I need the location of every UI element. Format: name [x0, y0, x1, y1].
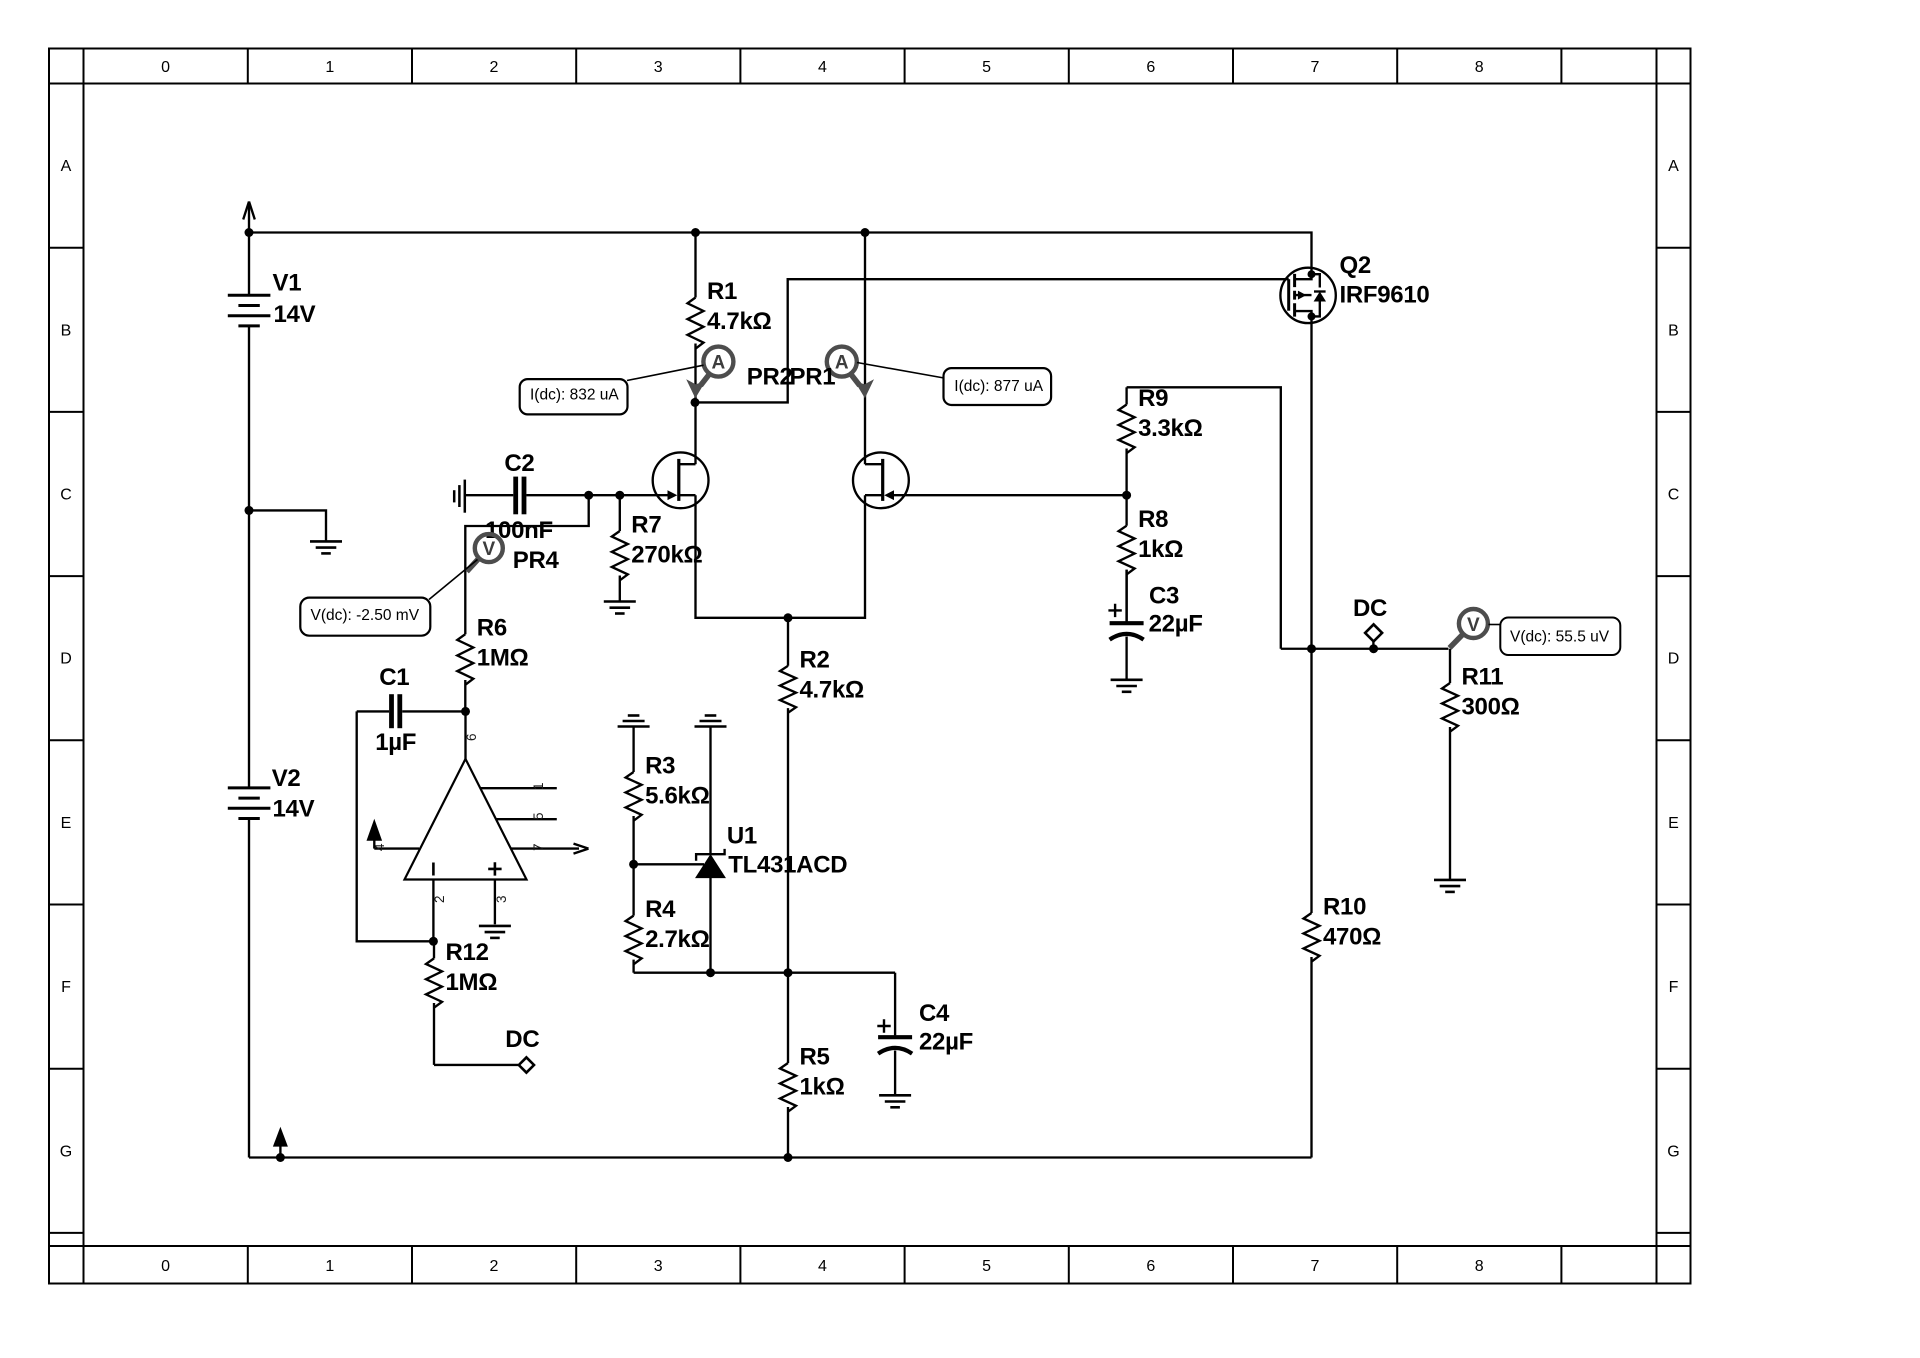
svg-text:300Ω: 300Ω: [1462, 694, 1520, 721]
svg-text:270kΩ: 270kΩ: [631, 542, 702, 569]
node V1+ / rail: [245, 228, 254, 237]
wire reference bottom net: [634, 972, 896, 974]
node rail/R1: [691, 228, 700, 237]
ground (input, rotated): [454, 480, 465, 513]
svg-text:R12: R12: [446, 939, 489, 966]
svg-text:F: F: [61, 979, 71, 996]
probe PR2 (ammeter): [686, 347, 733, 399]
port DC (output node): [1353, 595, 1387, 641]
svg-text:R4: R4: [645, 896, 676, 923]
capacitor C2: [485, 450, 553, 544]
wire Q2 drain down: [1310, 323, 1312, 649]
svg-text:R1: R1: [707, 278, 737, 305]
wire 0V reference spur: [249, 510, 326, 541]
svg-text:22µF: 22µF: [1149, 611, 1203, 638]
resistor R10: [1304, 649, 1382, 1158]
battery V1: [228, 202, 316, 328]
svg-text:C2: C2: [504, 450, 534, 477]
svg-text:R8: R8: [1138, 506, 1168, 533]
svg-text:14V: 14V: [274, 301, 316, 328]
svg-text:1: 1: [325, 1258, 334, 1275]
svg-text:2.7kΩ: 2.7kΩ: [645, 926, 710, 953]
svg-text:B: B: [61, 322, 72, 339]
wire R12 to DC port: [434, 1064, 518, 1066]
shunt reference U1 TL431: [696, 727, 847, 973]
svg-text:14V: 14V: [273, 796, 315, 823]
svg-text:B: B: [1668, 322, 1679, 339]
svg-text:DC: DC: [505, 1026, 539, 1053]
svg-text:V1: V1: [273, 270, 302, 297]
node R2/R5: [784, 968, 793, 977]
resistor R5: [780, 973, 845, 1158]
svg-text:3: 3: [654, 59, 663, 76]
node rail/PR1: [861, 228, 870, 237]
svg-text:C: C: [60, 487, 72, 504]
callout I(dc): 832 uA (PR2): [520, 365, 704, 414]
svg-text:R9: R9: [1138, 385, 1168, 412]
ground (R3 top, flipped): [618, 716, 650, 727]
svg-text:V(dc): 55.5 uV: V(dc): 55.5 uV: [1510, 629, 1610, 646]
svg-text:4.7kΩ: 4.7kΩ: [707, 308, 772, 335]
svg-text:V: V: [482, 539, 495, 560]
svg-text:4: 4: [818, 1258, 827, 1275]
svg-text:I(dc): 832 uA: I(dc): 832 uA: [530, 387, 619, 404]
capacitor C1: [357, 664, 466, 756]
node R5/rail: [784, 1153, 793, 1162]
wire output node: [1281, 648, 1449, 650]
svg-text:5: 5: [982, 59, 991, 76]
callout V(dc): -2.50 mV (PR4): [300, 560, 477, 636]
svg-text:V(dc): -2.50 mV: V(dc): -2.50 mV: [311, 607, 420, 624]
svg-text:6: 6: [1146, 59, 1155, 76]
ground (R7): [604, 602, 636, 614]
node output/DC port: [1369, 644, 1378, 653]
node sources/R2: [784, 613, 793, 622]
wire C2 node down to R6: [465, 495, 588, 634]
svg-text:22µF: 22µF: [919, 1029, 973, 1056]
svg-text:V: V: [1467, 615, 1480, 636]
transistor J1 (left JFET of pair): [653, 402, 709, 508]
svg-text:2: 2: [432, 895, 447, 903]
node output/Q2 drain/R10: [1307, 644, 1316, 653]
battery V2: [228, 765, 315, 823]
svg-text:DC: DC: [1353, 595, 1387, 622]
svg-text:0: 0: [161, 1258, 170, 1275]
svg-text:5: 5: [531, 812, 546, 820]
wire C1 feedback loop: [357, 711, 434, 941]
svg-text:1µF: 1µF: [375, 729, 416, 756]
svg-text:G: G: [1667, 1143, 1679, 1160]
wire JFET sources common: [696, 495, 866, 618]
svg-text:R3: R3: [645, 753, 675, 780]
svg-text:5.6kΩ: 5.6kΩ: [645, 783, 710, 810]
svg-text:V2: V2: [272, 765, 301, 792]
node pin2/C1/R12: [429, 937, 438, 946]
wire R9 top to output node: [1127, 387, 1281, 648]
svg-text:U1: U1: [727, 823, 757, 850]
svg-text:D: D: [1668, 651, 1680, 668]
wire TL431 ref: [634, 863, 704, 865]
svg-text:Q2: Q2: [1340, 252, 1371, 279]
node rail port: [276, 1153, 285, 1162]
svg-text:3: 3: [654, 1258, 663, 1275]
svg-text:1: 1: [325, 59, 334, 76]
svg-text:7: 7: [1311, 59, 1320, 76]
ground (C3): [1111, 680, 1143, 692]
svg-text:A: A: [712, 353, 726, 374]
resistor R9: [1119, 385, 1203, 495]
resistor R7: [612, 495, 703, 601]
op-amp U2 pin numbers: [372, 733, 546, 903]
ground (U1 cathode, flipped): [695, 716, 727, 727]
op-amp U2: [374, 711, 588, 941]
svg-text:R5: R5: [800, 1044, 830, 1071]
wire C2 to left JFET gate: [526, 494, 671, 496]
svg-text:C3: C3: [1149, 583, 1179, 610]
wire V1- to V2+: [248, 326, 250, 788]
node C1/R6/pin6: [461, 707, 470, 716]
wire left drain to Q2 gate: [695, 279, 1289, 402]
capacitor C4 (polarized): [877, 973, 973, 1096]
svg-text:R2: R2: [800, 646, 830, 673]
resistor R4: [626, 864, 710, 972]
resistor R11: [1442, 649, 1520, 880]
svg-text:7: 7: [531, 843, 546, 851]
port +V arrow (op-amp pin 4): [367, 819, 383, 849]
resistor R2: [780, 618, 864, 973]
svg-text:PR1: PR1: [790, 364, 836, 391]
wire input ground to C2: [466, 494, 513, 496]
node R8/R9/J2 gate: [1122, 491, 1131, 500]
svg-text:0: 0: [161, 59, 170, 76]
svg-text:TL431ACD: TL431ACD: [728, 852, 847, 879]
wire right JFET gate to R8/R9: [890, 494, 1127, 496]
svg-text:6: 6: [1146, 1258, 1155, 1275]
svg-text:1MΩ: 1MΩ: [446, 969, 498, 996]
svg-text:8: 8: [1475, 1258, 1484, 1275]
svg-text:R7: R7: [631, 512, 661, 539]
ground (R11): [1434, 880, 1466, 892]
svg-text:F: F: [1669, 979, 1679, 996]
transistor J2 (right JFET of pair): [853, 452, 909, 508]
svg-text:C4: C4: [919, 1000, 950, 1027]
resistor R1: [688, 233, 772, 403]
wire -14V bottom rail: [249, 1156, 1312, 1158]
svg-text:7: 7: [1311, 1258, 1320, 1275]
capacitor C3 (polarized): [1108, 570, 1202, 680]
wire rail through PR1 to right JFET drain: [864, 233, 866, 465]
callout I(dc): 877 uA (PR1): [857, 363, 1051, 406]
svg-text:2: 2: [490, 59, 499, 76]
svg-text:4: 4: [818, 59, 827, 76]
svg-text:C: C: [1668, 487, 1680, 504]
svg-text:4.7kΩ: 4.7kΩ: [800, 676, 865, 703]
ground (supply midpoint): [310, 541, 342, 553]
node R3/R4/ref: [629, 860, 638, 869]
svg-text:3.3kΩ: 3.3kΩ: [1138, 415, 1203, 442]
resistor R3: [626, 727, 710, 865]
wire DC port stem: [1372, 642, 1374, 649]
svg-text:E: E: [1668, 815, 1679, 832]
probe PR3 (voltmeter, output): [1450, 609, 1488, 648]
node U1 anode: [706, 968, 715, 977]
svg-text:I(dc): 877 uA: I(dc): 877 uA: [954, 378, 1043, 395]
svg-text:8: 8: [1475, 59, 1484, 76]
svg-text:A: A: [835, 353, 849, 374]
probe PR4 (voltmeter): [467, 534, 560, 574]
svg-text:PR4: PR4: [513, 547, 560, 574]
svg-text:6: 6: [464, 733, 479, 741]
port DC (op-amp output node): [505, 1026, 539, 1073]
svg-text:IRF9610: IRF9610: [1340, 282, 1430, 309]
svg-text:PR2: PR2: [747, 364, 793, 391]
svg-text:D: D: [60, 651, 72, 668]
node C2/PR4: [584, 491, 593, 500]
svg-text:3: 3: [494, 895, 509, 903]
ground (C4): [879, 1095, 911, 1107]
resistor R8: [1119, 495, 1184, 621]
callout V(dc): 55.5 uV (PR3): [1489, 618, 1621, 656]
svg-text:100nF: 100nF: [485, 517, 553, 544]
transistor Q2 IRF9610 (P-MOSFET): [1280, 252, 1429, 323]
port -V arrow (bottom rail): [273, 1127, 288, 1158]
svg-text:R6: R6: [477, 615, 507, 642]
svg-text:C1: C1: [379, 664, 409, 691]
svg-text:1: 1: [531, 782, 546, 790]
resistor R6: [457, 615, 528, 712]
resistor R12: [426, 939, 497, 1065]
wire +14V top rail: [249, 233, 1312, 268]
wire V2- down: [248, 819, 250, 1158]
svg-text:G: G: [60, 1143, 72, 1160]
svg-text:1kΩ: 1kΩ: [800, 1074, 845, 1101]
node R7/J1 gate: [615, 491, 624, 500]
ground (op-amp pin 3): [479, 926, 511, 938]
svg-text:R10: R10: [1323, 894, 1366, 921]
svg-text:A: A: [1668, 158, 1679, 175]
node 0V junction: [245, 506, 254, 515]
svg-text:470Ω: 470Ω: [1323, 924, 1381, 951]
svg-text:E: E: [61, 815, 72, 832]
node R1/J1 drain/Q2 gate: [691, 398, 700, 407]
svg-text:5: 5: [982, 1258, 991, 1275]
svg-text:1kΩ: 1kΩ: [1138, 536, 1183, 563]
svg-text:A: A: [61, 158, 72, 175]
svg-text:2: 2: [490, 1258, 499, 1275]
svg-text:R11: R11: [1462, 664, 1504, 691]
svg-text:1MΩ: 1MΩ: [477, 645, 529, 672]
probe PR1 (ammeter): [827, 347, 874, 399]
